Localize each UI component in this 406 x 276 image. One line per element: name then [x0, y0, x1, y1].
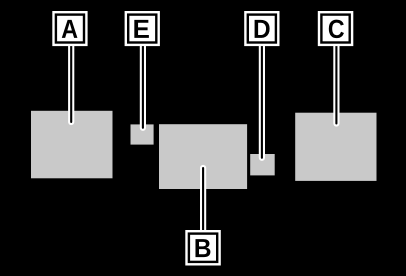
gray box C (right component) [295, 113, 376, 181]
gray box E (small component left-center) [131, 124, 154, 144]
wire E casing [140, 40, 146, 128]
label B [185, 230, 221, 266]
wire D core [261, 40, 263, 158]
wire A core [70, 40, 72, 122]
gray box B (center component) [159, 124, 247, 189]
label E [125, 11, 160, 46]
label A [52, 11, 87, 46]
wire B casing [200, 168, 206, 240]
gray box A (left component) [31, 111, 113, 179]
wire C casing [333, 40, 339, 124]
wire C core [335, 40, 337, 124]
wire E core [142, 40, 144, 128]
wire D casing [259, 40, 265, 158]
label D [244, 11, 279, 46]
label C [318, 11, 354, 46]
wire B core [202, 168, 204, 240]
wire A casing [68, 40, 74, 122]
gray box D (small component right-center) [250, 154, 275, 175]
